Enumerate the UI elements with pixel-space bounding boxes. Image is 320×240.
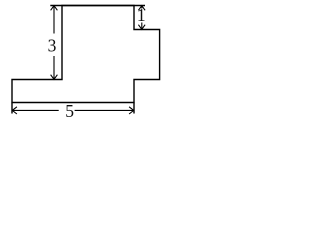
svg-text:1: 1 [137,5,146,25]
svg-text:3: 3 [48,36,57,56]
svg-text:5: 5 [65,101,74,121]
